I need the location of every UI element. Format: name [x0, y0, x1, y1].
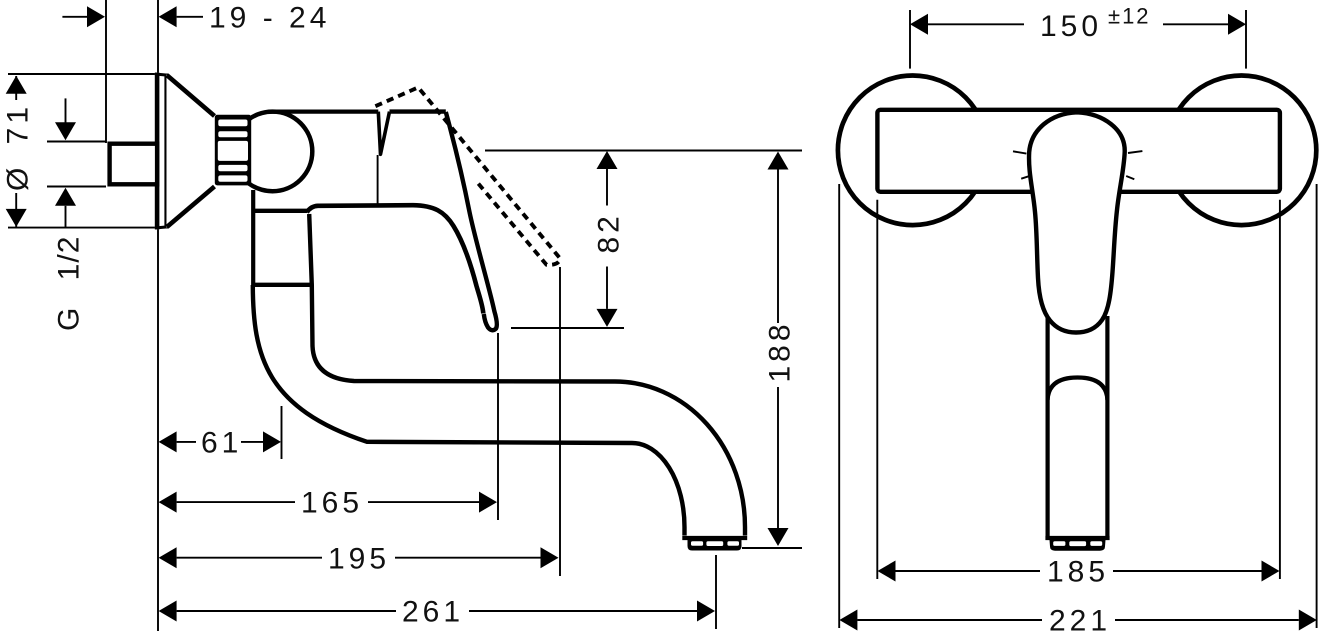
extension line 82/188 top — [485, 150, 802, 152]
right view: spout upper dome cap — [1048, 378, 1108, 401]
svg-text:19 - 24: 19 - 24 — [209, 2, 330, 35]
svg-text:Ø 71: Ø 71 — [2, 103, 35, 191]
nut slot 1 — [218, 120, 247, 127]
svg-text:82: 82 — [593, 212, 626, 253]
nut slot 5 — [218, 175, 247, 181]
nut slot middle — [218, 141, 248, 161]
right view: tube bottom edge — [1045, 536, 1109, 540]
extension line 185 right — [1279, 200, 1281, 579]
left aerator body — [688, 540, 742, 551]
dim 61 — [159, 431, 177, 452]
dim G1/2: upper arrow — [65, 98, 67, 124]
left aerator slot 1 — [691, 541, 703, 546]
spout outlet end edge — [682, 536, 747, 540]
extension line G1/2 bottom — [47, 186, 106, 188]
right view: tick right 1 — [1128, 151, 1142, 153]
supply pipe stub G1/2 — [110, 144, 158, 185]
svg-text:±12: ±12 — [1108, 4, 1151, 29]
right view: spout tube left edge — [1045, 316, 1049, 537]
lever V-notch — [378, 112, 389, 155]
right view: left escutcheon circle — [838, 76, 988, 226]
dim 19-24: left line+arrow — [62, 16, 88, 18]
escutcheon flange right edge — [164, 74, 168, 229]
extension line 61 — [281, 406, 283, 459]
extension line 221 right — [1316, 184, 1318, 628]
svg-text:G 1/2: G 1/2 — [53, 236, 86, 331]
right view: tick left 2 — [1021, 176, 1030, 179]
right view: right escutcheon circle — [1167, 76, 1317, 226]
dim 150 +-12 — [910, 14, 928, 35]
left aerator slot 2 — [706, 541, 723, 546]
solid lever blade right edge + tip — [446, 112, 497, 330]
right view: lever egg (front) — [1029, 112, 1125, 332]
dim phi71: label — [3, 100, 30, 193]
nut slot 2 — [218, 131, 247, 137]
escutcheon cone top edge — [167, 75, 215, 116]
dim 185 — [878, 561, 896, 582]
ball joint circle — [233, 112, 313, 192]
right view: aerator body — [1050, 540, 1106, 551]
union nut body — [215, 115, 251, 186]
escutcheon flange left edge — [155, 73, 160, 230]
svg-text:61: 61 — [201, 427, 242, 460]
extension line G1/2 top — [47, 141, 106, 143]
svg-text:165: 165 — [301, 487, 363, 520]
svg-text:185: 185 — [1047, 556, 1109, 589]
column left edge — [251, 190, 255, 285]
spout hub top edge and solid lever blade lower edge — [307, 205, 484, 313]
escutcheon cone fill — [167, 75, 216, 228]
swivel parting line — [252, 283, 312, 287]
left aerator slot 3 — [727, 541, 739, 546]
dim 195 — [159, 547, 177, 568]
dim phi71: vertical line — [15, 76, 17, 227]
right view: tick right 2 — [1126, 176, 1134, 179]
dim 188 — [768, 152, 789, 170]
right view: aerator slot 3 — [1090, 541, 1102, 546]
escutcheon flange fill — [155, 73, 169, 230]
extension line phi71 bottom — [8, 227, 156, 229]
right view: tick left 1 — [1013, 151, 1026, 153]
spout outer edge: bend, bottom edge, end inner bend, outlet left — [253, 285, 685, 536]
svg-text:261: 261 — [402, 596, 464, 629]
right view: body bar — [877, 110, 1280, 192]
extension line 150 left — [909, 10, 911, 69]
svg-text:195: 195 — [328, 542, 390, 575]
extension line 150 right — [1245, 10, 1247, 69]
extension line 261 (from spout outlet) — [715, 555, 717, 629]
dashed lever raised outline — [375, 87, 560, 264]
dim 221 — [839, 610, 857, 631]
escutcheon flange bottom edge — [155, 227, 169, 228]
dim 165 — [159, 492, 177, 513]
lever base top edge — [390, 109, 446, 113]
extension line pipe end (19-24 left) — [105, 0, 107, 143]
nut slot 4 — [218, 165, 247, 171]
dim 261 — [159, 601, 177, 622]
extension line 221 left — [838, 184, 840, 628]
body bottom edge — [252, 209, 307, 213]
escutcheon flange top edge — [155, 74, 169, 75]
dim G1/2: lower arrow — [55, 188, 76, 206]
dim 19-24: right arrow+line — [159, 6, 177, 27]
wall reference line — [157, 0, 159, 631]
spout inner edge: hub right, inner bend, top edge, end bend outer, outlet right — [309, 214, 745, 536]
svg-text:221: 221 — [1049, 605, 1111, 638]
extension line phi71 top — [8, 73, 156, 75]
extension line 165 (from solid lever tip) — [497, 333, 499, 520]
svg-text:188: 188 — [764, 320, 797, 382]
escutcheon cone bottom edge — [167, 187, 215, 227]
right view: spout tube right edge — [1105, 316, 1109, 537]
right view: aerator slot 1 — [1053, 541, 1065, 546]
extension line 185 left — [876, 200, 878, 579]
svg-text:150: 150 — [1040, 10, 1102, 43]
dim 82 — [597, 151, 618, 169]
extension line 188 bottom — [742, 547, 802, 549]
extension line 195 (from dashed lever tip) — [559, 267, 561, 576]
extension line 82 bottom — [511, 327, 624, 329]
faucet body top edge — [271, 109, 378, 113]
cartridge parting thin line — [377, 155, 379, 204]
right view: aerator slot 2 — [1069, 541, 1086, 546]
